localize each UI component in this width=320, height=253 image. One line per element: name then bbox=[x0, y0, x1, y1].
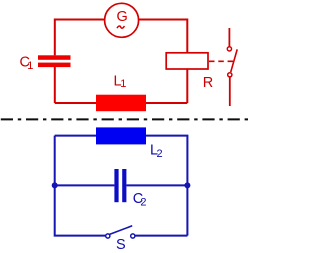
wire: blue left branch and bottom-left wire bbox=[55, 136, 106, 236]
junction dot right bbox=[184, 182, 190, 188]
svg-text:R: R bbox=[203, 75, 213, 91]
switch (red) top contact circle bbox=[227, 47, 231, 51]
switch (red) lever bbox=[231, 49, 238, 72]
svg-text:2: 2 bbox=[157, 148, 163, 160]
svg-text:1: 1 bbox=[27, 60, 33, 72]
wire: red left branch below C1 bbox=[54, 67, 56, 103]
switch S (blue) left contact circle bbox=[106, 234, 110, 238]
wire: blue middle wire left (to C2) bbox=[55, 184, 115, 186]
svg-text:S: S bbox=[116, 237, 126, 253]
generator G circle bbox=[105, 3, 139, 37]
wire: blue top wire right of L2, right branch bbox=[146, 136, 187, 236]
switch (red) top lead wire bbox=[228, 28, 230, 47]
wire: blue bottom wire right of switch bbox=[135, 235, 187, 237]
separator dash-dot axis line bbox=[1, 118, 250, 120]
wire: blue top wire left of L2 bbox=[55, 135, 96, 137]
capacitor C2 plate left bbox=[114, 169, 118, 202]
wire: red top right segment (G to right branch, down to R) bbox=[139, 20, 188, 53]
wire: red right branch below R bbox=[186, 69, 188, 103]
wire: red bottom wire bbox=[55, 102, 188, 104]
junction dot left bbox=[52, 182, 58, 188]
svg-text:2: 2 bbox=[140, 196, 146, 208]
wire: red left branch top (C1 top up to corner, across to G) bbox=[55, 20, 105, 56]
dashed mechanical link from R to switch lever bbox=[209, 60, 233, 62]
svg-text:1: 1 bbox=[120, 78, 126, 90]
switch (red) bottom lead wire bbox=[229, 77, 231, 106]
AC tilde symbol inside G bbox=[117, 26, 124, 28]
capacitor C2 plate right bbox=[122, 169, 126, 202]
switch S (blue) right contact circle bbox=[131, 234, 135, 238]
capacitor C1 plate top bbox=[38, 55, 71, 60]
inductor L2 (filled rect) bbox=[96, 127, 146, 144]
inductor L1 (filled rect) bbox=[96, 95, 146, 112]
svg-text:G: G bbox=[117, 9, 128, 25]
capacitor C1 plate bottom bbox=[38, 63, 71, 68]
wire: blue middle wire right (from C2) bbox=[126, 184, 187, 186]
resistor R (box) bbox=[166, 53, 208, 69]
switch S (blue) lever bbox=[110, 226, 133, 235]
switch (red) bottom contact circle bbox=[228, 73, 232, 77]
